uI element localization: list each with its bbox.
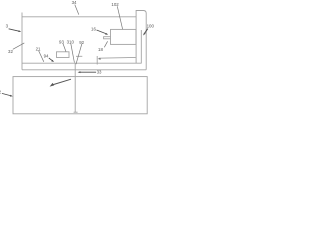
svg-text:32: 32 (8, 49, 13, 54)
component box 102 (111, 29, 137, 44)
arrow 3 (9, 29, 22, 32)
leader 21 (39, 51, 44, 62)
raised shelf line (99, 56, 136, 59)
arrow 33 (78, 71, 96, 73)
leader 34 (75, 5, 79, 15)
small dash near 17 (76, 55, 82, 57)
lid right raised wall (136, 11, 146, 70)
svg-text:100: 100 (147, 23, 154, 28)
lid bottom edge (22, 69, 146, 71)
band top (package floor) (22, 62, 141, 64)
leader 102 (117, 6, 122, 29)
leader 93 (63, 44, 66, 52)
leader 18 (104, 41, 107, 47)
arrow 100 (143, 29, 148, 36)
arrow 16 (97, 30, 109, 35)
svg-text:33: 33 (97, 70, 102, 75)
lid top edge (22, 16, 136, 18)
feedthrough pin 33 (74, 63, 76, 112)
svg-text:92: 92 (79, 40, 84, 45)
shelf arrowhead (98, 58, 101, 60)
pin foot pad (74, 111, 78, 113)
svg-text:94: 94 (44, 54, 49, 59)
svg-text:21: 21 (36, 46, 41, 51)
arrow 9 (into base) (50, 79, 71, 86)
leader 92 (76, 44, 82, 64)
svg-text:310: 310 (67, 39, 75, 44)
leader 310 (71, 44, 75, 63)
svg-text:102: 102 (111, 2, 119, 7)
small box 93 (57, 52, 70, 58)
svg-text:34: 34 (72, 0, 77, 5)
lid left edge (21, 13, 23, 70)
arrow 2 (2, 93, 13, 96)
lid inner right wall (140, 30, 142, 64)
shelf step tick (96, 56, 98, 65)
base block 2 (13, 77, 147, 114)
svg-text:18: 18 (98, 47, 103, 52)
svg-text:16: 16 (91, 27, 96, 32)
svg-text:93: 93 (59, 39, 64, 44)
pin tab 16/18 (104, 37, 111, 39)
background (0, 0, 154, 120)
arrow 94 (49, 58, 54, 62)
leader 32 (13, 43, 24, 49)
